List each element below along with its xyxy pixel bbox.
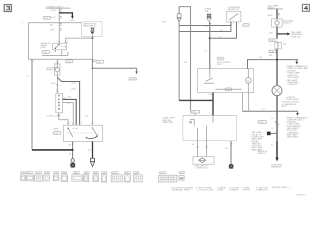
wire: relay pin2 down + short bus A [42,50,68,56]
junction block J/B [275,41,287,49]
svg-text:FUSE (13): FUSE (13) [288,84,298,86]
long bus wire B [29,58,93,60]
connector view C-42 [133,172,142,182]
svg-text:2 TRACER: 2 TRACER [229,189,239,192]
wire: switch bottom elbow into M/B [59,113,68,125]
condenser fan motor relay box [227,7,241,22]
svg-text:C-48: C-48 [270,40,274,42]
svg-text:C-35: C-35 [62,172,66,174]
svg-text:C-43: C-43 [160,172,164,174]
connector view C-30 [21,172,27,181]
thick wire: M/B out to starter (arrow connector) [88,142,95,167]
svg-text:20-A: 20-A [71,88,76,91]
wires: lower box to checker [198,141,207,157]
connector view C-40 [111,172,122,182]
svg-text:20-A: 20-A [51,82,56,85]
page number box 4 (top-right) [302,4,309,11]
svg-text:C-22: C-22 [244,25,248,27]
pin tick into control unit [209,66,211,68]
relay pin ticks top [58,40,66,43]
svg-text:C-23: C-23 [218,59,222,61]
wire: main right vertical [276,49,278,85]
svg-text:C-102: C-102 [180,172,184,174]
battery / power source block [82,22,102,37]
svg-text:16-B: 16-B [51,10,56,12]
wire: B+ vertical darker segment to seat elbow [91,59,93,68]
svg-text:1-W: 1-W [204,26,208,28]
connector view C-43 [159,172,177,183]
fusible link tap symbol (left) [177,14,181,22]
inline connector ticks on column [57,84,59,91]
body ground (black square) [70,163,75,168]
svg-text:9-1: 9-1 [271,118,274,120]
end arrow down [275,141,278,161]
svg-text:1-40: 1-40 [85,116,89,118]
svg-text:C-35: C-35 [43,52,47,54]
svg-text:4-W: 4-W [269,33,273,35]
wire: fuse output down [56,75,58,93]
wire: fuse down [276,27,278,39]
page number box 3 (top-left) [4,5,11,12]
thick wire: control unit to body elbow [179,99,213,101]
label rect on wire above lower box [191,110,200,113]
wire: upper feed line to battery block [29,23,82,60]
text left of end arrow [258,150,268,155]
body ground (black square) right [229,164,233,168]
wire label 16-B upper + connector tick [51,10,61,13]
junction dot battery feed [91,37,93,39]
wire label 16-B row3 + tick [50,29,62,32]
thick wire: control unit pin down into lower box [212,93,214,116]
svg-text:C-40: C-40 [112,172,116,174]
svg-text:C-30: C-30 [44,18,48,20]
svg-text:C-36: C-36 [74,172,78,174]
wire: M/B ground drop [69,142,74,159]
fuse F1 (box with circle) [55,64,60,75]
relay R1 box [53,43,67,50]
wire: battery down to junction [91,35,93,39]
connector C-48 oval [269,39,276,42]
text block left C [251,131,265,151]
connector view C-36 [72,172,83,182]
svg-text:PAGE 54: PAGE 54 [258,152,267,155]
svg-text:C-32: C-32 [97,62,101,64]
svg-text:3: 3 [70,122,71,124]
svg-text:AND RADIO: AND RADIO [287,136,299,139]
svg-text:HARNESS: HARNESS [271,166,281,169]
svg-text:1: 1 [233,24,234,26]
svg-text:CONNECTOR: CONNECTOR [195,168,208,170]
svg-text:C-32: C-32 [36,172,40,174]
svg-text:3: 3 [57,41,58,43]
svg-text:20-B: 20-B [71,83,76,85]
labels left of M/B box [53,129,61,135]
svg-text:1: 1 [22,22,23,24]
connector C-30 oval label (top) [43,16,51,19]
svg-text:MAIN LINE B+: MAIN LINE B+ [83,25,97,28]
wire: main feed vertical from fusible link [58,8,60,43]
text block left of lower box [163,118,176,124]
connector oval C-22 [243,24,249,27]
label FUSIBLE LINK (2) [46,5,70,8]
svg-text:LIGHT: LIGHT [281,106,288,108]
svg-text:1: 1 [95,59,96,61]
wire: loop over to second vertical [179,7,191,111]
connector view C-35 [61,172,68,182]
wire: switch out 1 (thick) to elbow [63,99,77,125]
wire: lower box right drop to ground [225,141,232,164]
connector view C-37 [84,172,90,182]
wire: fuse stack vertical down to C-23 [209,22,211,68]
svg-text:2: 2 [209,113,210,115]
ignition switch SW1 box [56,93,63,113]
svg-text:(B): (B) [50,25,53,27]
svg-text:2 SIZE: 2 SIZE [217,190,224,192]
svg-text:16-B: 16-B [50,30,55,32]
svg-text:16: 16 [27,76,29,78]
bus tick + connector oval C-32 at right end [93,59,104,63]
svg-text:FUSE ⑤: FUSE ⑤ [283,22,291,25]
svg-text:C-41: C-41 [125,172,129,174]
wire: switch out 2 to elbow [63,103,74,126]
connector view C-32 [35,172,43,182]
M/B pin ticks top [67,122,93,124]
svg-text:16-B: 16-B [51,17,56,19]
svg-text:2: 2 [238,24,239,26]
connector view C-31 [27,172,34,181]
thick wire branch to other page (arrow down) [59,13,74,22]
wire: long feed line [179,25,231,27]
connector C-303 ticks + label under switch [46,114,60,117]
wire: motor output line with arrow [243,93,299,116]
connector oval below J/B [269,50,277,57]
connector oval on bus [66,60,74,63]
ground terminal circle [71,159,74,163]
svg-text:9-2: 9-2 [271,144,274,146]
wire: condenser relay feed T line [248,57,299,68]
svg-text:C-34: C-34 [54,172,58,174]
connector C-23 label + text [217,57,232,66]
relay pin ticks bottom [230,23,232,25]
wire: relay right pin down to oval C-30 [53,50,55,54]
wire: horizontal battery feed to relay [66,38,93,43]
svg-text:C-39: C-39 [54,133,58,135]
svg-text:90W50-14: 90W50-14 [297,194,305,196]
svg-text:1: 1 [67,41,68,43]
connector view C-34 [53,172,59,181]
wire: left tall vertical down to thick elbow [178,21,180,100]
junction dot at T [276,59,278,61]
lower unit box U2 (dashed top) [183,116,237,141]
svg-text:36-W: 36-W [268,15,273,17]
svg-text:PLATE LAMP: PLATE LAMP [288,71,301,74]
thick return wire from left vertical to ground drop [32,149,73,151]
svg-text:C-42: C-42 [134,172,138,174]
svg-text:1: 1 [94,122,95,124]
label left of fuse [46,66,58,71]
svg-text:2 NOTE: 2 NOTE [242,190,250,192]
wire: center B+ vertical down to M/B [91,38,93,125]
junction dot on feed split [209,37,211,39]
control unit box U1 [198,69,254,93]
svg-text:5: 5 [82,122,83,124]
text block right A2 [281,101,301,108]
svg-text:M: M [247,80,249,82]
wire label 16-B lower + connector tick [51,16,61,19]
svg-text:FUSE ⑥: FUSE ⑥ [46,69,54,72]
svg-text:1: 1 [33,61,34,63]
wire: relay feed vertical top [276,9,278,19]
thick branch arrow right [277,31,303,38]
svg-text:— COLOUR CODE: — COLOUR CODE [196,190,214,192]
thick wire: feed to seat circuit with arrow [92,68,138,81]
junction of seat feed on B+ vertical [92,68,94,70]
svg-text:(M/B): (M/B) [53,129,58,131]
wire label (B) row + tick [50,24,62,27]
svg-text:2: 2 [59,53,60,55]
text block right A [286,65,309,86]
svg-text:C-30: C-30 [21,172,25,174]
caption under arrow [271,164,283,168]
svg-text:GROUND VIEW ——: GROUND VIEW —— [272,187,291,189]
svg-text:C-37: C-37 [85,172,89,174]
fuse stack F2 (top middle) [205,9,212,22]
connector view C-41 [124,172,130,183]
svg-text:LAMP UNIT: LAMP UNIT [163,121,174,124]
svg-text:2 TABLE NO: 2 TABLE NO [256,189,268,192]
svg-text:STOP LAMP: STOP LAMP [288,76,300,79]
svg-text:C-38: C-38 [94,172,98,174]
label block left of relay + oval [41,43,52,54]
svg-text:SHOWN AS · WIRE—: SHOWN AS · WIRE— [172,189,192,192]
svg-text:F-3: F-3 [204,51,207,53]
svg-text:UNIT: UNIT [217,64,222,66]
svg-text:C-31: C-31 [28,172,32,174]
wire: relay pin to line y31.5 [179,22,231,32]
left tall vertical wire [31,59,33,150]
svg-text:C-33: C-33 [45,172,49,174]
connector view C-39 [101,172,107,183]
fuse F1 column: ticks from bus [54,59,58,64]
svg-text:C-102: C-102 [259,122,264,124]
joint to ground (black square) [267,132,277,136]
connector view C-102 [179,172,185,181]
M/B fuse block box [64,125,103,141]
text block right B [286,116,308,138]
inline connector ticks at x210 [209,24,211,26]
dedicated fuse (box with circle) [272,19,294,27]
svg-text:WARMER: WARMER [128,78,138,81]
svg-text:1-L: 1-L [67,103,70,105]
connector view C-33 [44,172,50,182]
svg-text:C-48: C-48 [270,51,274,53]
svg-text:⋅1-303-4 C-303: ⋅1-303-4 C-303 [46,115,60,117]
svg-text:C-30: C-30 [66,61,70,63]
svg-text:FAN MOTOR: FAN MOTOR [228,8,240,11]
diagnosis connector box with diamond [193,157,214,165]
wire: relay pin to line y38.2 [210,22,237,38]
connector view C-38 [93,172,99,182]
svg-text:2: 2 [53,51,54,53]
svg-text:FUSE (13): FUSE (13) [291,36,301,38]
svg-text:9-1: 9-1 [271,128,274,130]
svg-text:C-39: C-39 [102,172,106,174]
connector C-102 on wire [258,121,279,125]
svg-text:(M/B): (M/B) [41,47,46,49]
tail lamp relay label (top right) [267,4,283,9]
lamp L1 (circle with X) [272,86,299,102]
wire: lamp down long vertical [276,96,278,141]
bottom legend row [172,186,305,196]
thick branch wire from column to M/B [57,77,79,125]
svg-text:A-30: A-30 [191,111,195,114]
